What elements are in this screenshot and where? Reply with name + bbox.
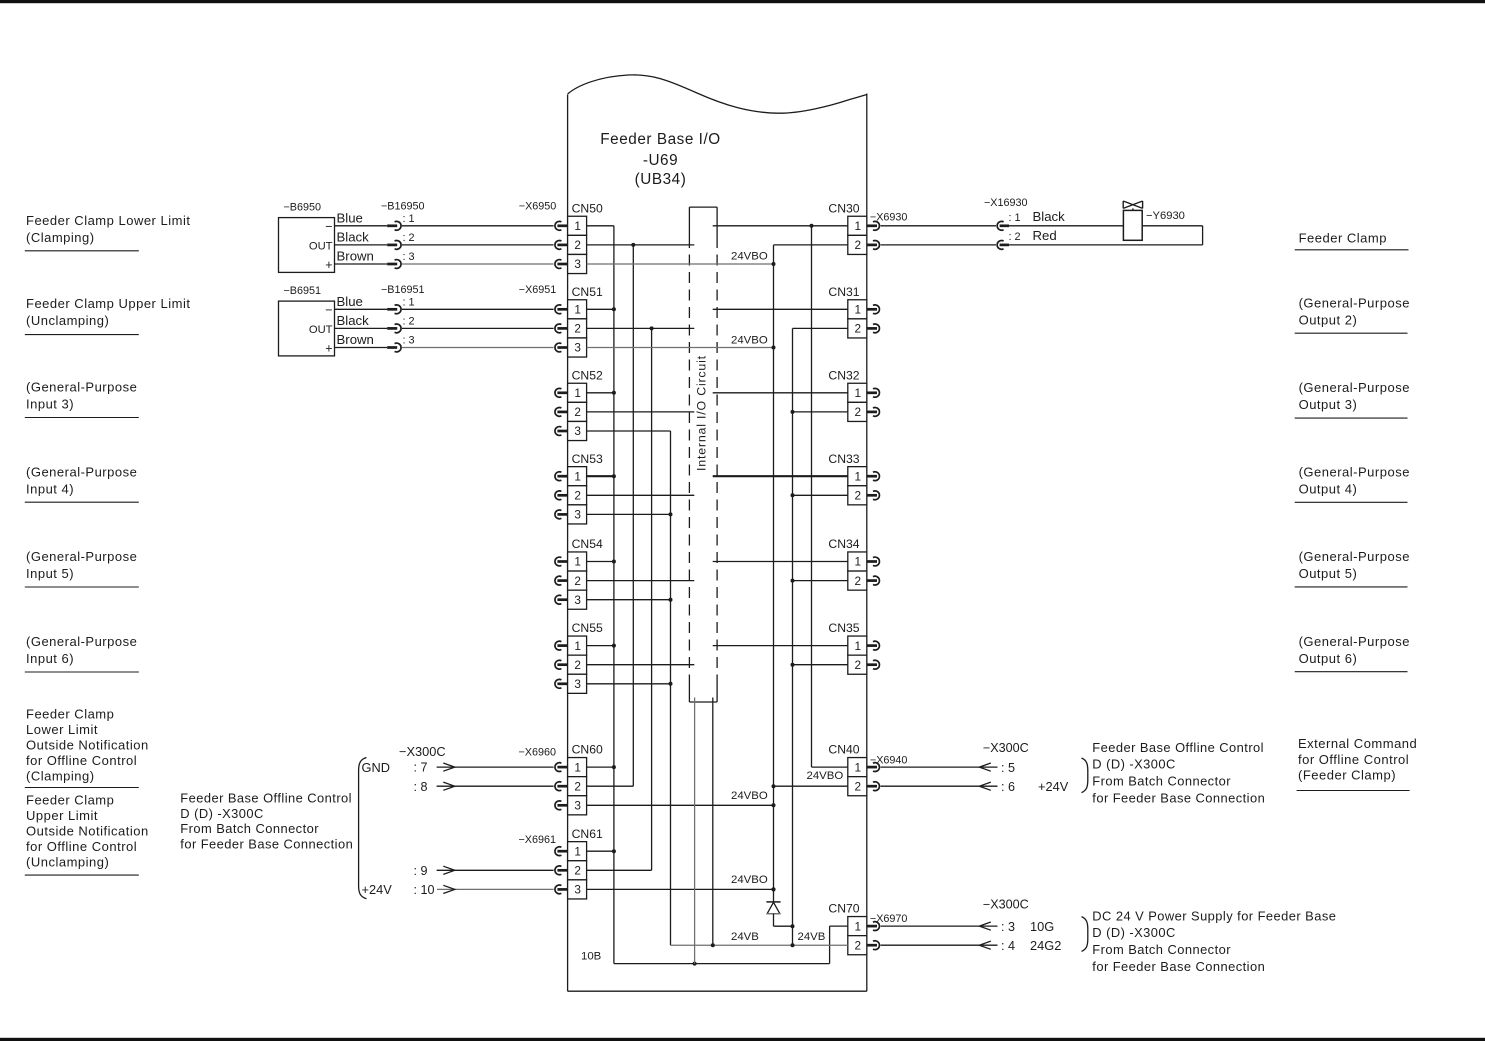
svg-text:Brown: Brown bbox=[337, 332, 374, 347]
svg-text:Lower Limit: Lower Limit bbox=[26, 722, 98, 737]
wire internal circuit to 10B line bbox=[694, 698, 696, 964]
svg-text:1: 1 bbox=[574, 555, 581, 569]
connector CN54 bbox=[568, 537, 603, 609]
svg-text:CN31: CN31 bbox=[828, 285, 859, 299]
grouping bracket for X300C wires bbox=[359, 758, 367, 899]
svg-text:2: 2 bbox=[574, 489, 581, 503]
rail CN30 pin1 to CN40 pin1 bbox=[810, 224, 848, 767]
svg-text:Outside Notification: Outside Notification bbox=[26, 824, 149, 839]
svg-text:: 1: : 1 bbox=[403, 296, 415, 308]
feeder base I/O unit U69 outline with wavy break top bbox=[568, 75, 867, 991]
internal I/O circuit block (dashed) bbox=[689, 207, 717, 702]
svg-text:: 10: : 10 bbox=[413, 883, 434, 897]
svg-text:: 1: : 1 bbox=[403, 213, 415, 225]
svg-text:Output 2): Output 2) bbox=[1299, 313, 1358, 328]
batch connector X300C right label (offline) bbox=[983, 741, 1029, 755]
svg-text:(General-Purpose: (General-Purpose bbox=[26, 464, 137, 479]
svg-text:CN52: CN52 bbox=[572, 368, 603, 382]
svg-text:: 6: : 6 bbox=[1001, 780, 1015, 794]
inline connector B16950 bbox=[381, 201, 425, 269]
svg-text:3: 3 bbox=[574, 677, 581, 691]
wire CN70 pin1 to X300C:3 10G bbox=[881, 919, 1055, 934]
proximity sensor B6950 bbox=[279, 202, 335, 273]
svg-text:2: 2 bbox=[574, 779, 581, 793]
label general purpose output 5 bbox=[1295, 549, 1410, 587]
svg-text:for Feeder Base Connection: for Feeder Base Connection bbox=[180, 837, 353, 852]
svg-text:−X6930: −X6930 bbox=[870, 211, 908, 223]
svg-text:CN60: CN60 bbox=[572, 743, 603, 757]
svg-text:3: 3 bbox=[574, 883, 581, 897]
batch connector X300C left label bbox=[399, 744, 446, 759]
svg-text:(General-Purpose: (General-Purpose bbox=[26, 634, 137, 649]
svg-text:Feeder Base Offline Control: Feeder Base Offline Control bbox=[1092, 740, 1264, 755]
svg-text:1: 1 bbox=[574, 639, 581, 653]
svg-text:Input 4): Input 4) bbox=[26, 481, 74, 496]
svg-text:−B16951: −B16951 bbox=[381, 284, 425, 296]
svg-text:−X6970: −X6970 bbox=[870, 913, 908, 925]
rail output pin2 24VB to CN31-CN35 bbox=[791, 328, 848, 945]
svg-text:1: 1 bbox=[574, 219, 581, 233]
svg-text:Feeder Clamp Lower Limit: Feeder Clamp Lower Limit bbox=[26, 213, 190, 228]
batch connector X300C right label (power) bbox=[983, 897, 1029, 911]
CN32 socket pins bbox=[867, 388, 880, 416]
wire X300C:10 to CN61 pin3 bbox=[413, 883, 553, 897]
wires B16951 to X6951 bbox=[402, 284, 556, 348]
label general purpose output 3 bbox=[1295, 380, 1410, 418]
svg-text:Outside Notification: Outside Notification bbox=[26, 737, 149, 752]
svg-text:D (D) -X300C: D (D) -X300C bbox=[1092, 925, 1175, 940]
CN61 socket pins bbox=[555, 847, 568, 894]
wire CN30 pin2 Red return loop bbox=[881, 226, 1203, 245]
proximity sensor B6951 bbox=[279, 285, 335, 356]
svg-text:−: − bbox=[325, 303, 332, 317]
svg-text:2: 2 bbox=[855, 938, 862, 952]
connector CN32 bbox=[828, 368, 866, 421]
svg-text:External Command: External Command bbox=[1298, 736, 1417, 751]
svg-text:10G: 10G bbox=[1030, 919, 1054, 934]
CN54 socket pins bbox=[555, 557, 568, 604]
connector CN52 bbox=[568, 368, 603, 440]
wire CN40 pin2 to X300C:6 bbox=[881, 779, 1069, 794]
right offline control description bbox=[1092, 740, 1265, 805]
label general purpose input 5 bbox=[25, 549, 139, 587]
svg-text:24VB: 24VB bbox=[731, 931, 759, 943]
CN53 socket pins bbox=[555, 472, 568, 519]
svg-text:CN53: CN53 bbox=[572, 452, 603, 466]
connector CN35 bbox=[828, 621, 866, 674]
svg-text:1: 1 bbox=[855, 555, 862, 569]
connector X6961 label bbox=[518, 834, 556, 846]
svg-text:Internal I/O Circuit: Internal I/O Circuit bbox=[695, 355, 709, 471]
svg-text:(General-Purpose: (General-Purpose bbox=[1299, 549, 1410, 564]
svg-text:OUT: OUT bbox=[309, 241, 333, 253]
svg-text:+: + bbox=[325, 258, 332, 272]
wire X300C:9 to CN61 pin2 bbox=[413, 864, 553, 878]
connector CN34 bbox=[828, 537, 866, 590]
svg-text:1: 1 bbox=[855, 303, 862, 317]
label feeder clamp upper limit outside notification bbox=[25, 793, 149, 876]
svg-text:CN70: CN70 bbox=[828, 902, 859, 916]
connector CN40 bbox=[828, 743, 866, 796]
svg-text:2: 2 bbox=[574, 864, 581, 878]
svg-text:(Feeder Clamp): (Feeder Clamp) bbox=[1298, 768, 1396, 783]
svg-text:From Batch Connector: From Batch Connector bbox=[1092, 774, 1231, 789]
svg-text:10B: 10B bbox=[581, 950, 601, 962]
CN33 socket pins bbox=[867, 472, 880, 500]
svg-text:1: 1 bbox=[574, 844, 581, 858]
svg-text:for Offline Control: for Offline Control bbox=[1298, 752, 1409, 767]
wires CN30-CN35 pin1 to internal circuit bbox=[713, 226, 848, 646]
svg-text:+24V: +24V bbox=[362, 882, 393, 897]
inline connector X16930 bbox=[984, 197, 1065, 249]
svg-text:−B6950: −B6950 bbox=[284, 202, 322, 214]
svg-text:: 3: : 3 bbox=[403, 335, 415, 347]
svg-text:1: 1 bbox=[855, 219, 862, 233]
svg-text:2: 2 bbox=[574, 238, 581, 252]
net +24V label bbox=[362, 882, 393, 897]
svg-text:−X6950: −X6950 bbox=[519, 201, 557, 213]
svg-text:3: 3 bbox=[574, 257, 581, 271]
svg-text:Black: Black bbox=[337, 313, 370, 328]
svg-text:-U69: -U69 bbox=[643, 152, 678, 169]
svg-text:GND: GND bbox=[362, 760, 390, 775]
svg-text:: 2: : 2 bbox=[1009, 231, 1021, 243]
connector X6960 label bbox=[518, 746, 556, 758]
svg-text:OUT: OUT bbox=[309, 324, 333, 336]
svg-text:Output 4): Output 4) bbox=[1299, 481, 1358, 496]
svg-text:−X300C: −X300C bbox=[983, 741, 1029, 755]
connector CN61 bbox=[568, 827, 603, 899]
label general purpose output 6 bbox=[1295, 634, 1410, 672]
svg-text:1: 1 bbox=[855, 919, 862, 933]
svg-text:2: 2 bbox=[574, 574, 581, 588]
grouping bracket offline control bbox=[1082, 758, 1088, 793]
svg-text:for Feeder Base Connection: for Feeder Base Connection bbox=[1092, 790, 1265, 805]
solenoid valve Y6930 bbox=[1123, 201, 1185, 240]
rail CN51 pin2 to CN61 pin2 bbox=[587, 328, 652, 870]
label external command for offline control bbox=[1297, 736, 1418, 790]
net 24VBO rail bbox=[587, 245, 848, 902]
CN40 socket pins bbox=[867, 763, 880, 791]
svg-text:3: 3 bbox=[574, 799, 581, 813]
unit title text bbox=[600, 131, 720, 188]
rail CN50 pin2 to CN60 pin2 bbox=[587, 245, 634, 786]
wire CN30 pin1 Black to valve bbox=[881, 225, 1124, 227]
svg-text:CN40: CN40 bbox=[828, 743, 859, 757]
svg-text:Brown: Brown bbox=[337, 249, 374, 264]
svg-text:−X6960: −X6960 bbox=[518, 746, 556, 758]
svg-text:Blue: Blue bbox=[337, 294, 363, 309]
svg-text:: 3: : 3 bbox=[1001, 920, 1015, 934]
svg-text:+: + bbox=[325, 341, 332, 355]
svg-text:−B16950: −B16950 bbox=[381, 201, 425, 213]
svg-text:Feeder Clamp: Feeder Clamp bbox=[1299, 231, 1387, 246]
svg-text:2: 2 bbox=[574, 658, 581, 672]
wire CN70 pin2 to X300C:4 24G2 bbox=[881, 938, 1062, 953]
connector X6970 label bbox=[870, 913, 908, 925]
svg-text:D (D) -X300C: D (D) -X300C bbox=[180, 806, 263, 821]
svg-text:24G2: 24G2 bbox=[1030, 938, 1061, 953]
wires B16950 to X6950 bbox=[402, 201, 556, 265]
svg-text:2: 2 bbox=[855, 238, 862, 252]
connector CN33 bbox=[828, 452, 866, 505]
svg-text:2: 2 bbox=[855, 405, 862, 419]
wire CN40 pin1 to X300C:5 bbox=[881, 761, 1015, 775]
label general purpose input 4 bbox=[25, 464, 139, 502]
svg-text:1: 1 bbox=[855, 469, 862, 483]
svg-text:Feeder Clamp: Feeder Clamp bbox=[26, 706, 114, 721]
svg-text:(General-Purpose: (General-Purpose bbox=[26, 549, 137, 564]
sensor B6950 wires Blue/Black/Brown bbox=[335, 210, 388, 264]
svg-text:−B6951: −B6951 bbox=[284, 285, 322, 297]
svg-text:3: 3 bbox=[574, 341, 581, 355]
CN34 socket pins bbox=[867, 557, 880, 585]
wire X300C:8 to CN60 pin2 bbox=[413, 780, 553, 794]
svg-text:3: 3 bbox=[574, 593, 581, 607]
CN55 socket pins bbox=[555, 641, 568, 688]
connector CN31 bbox=[828, 285, 866, 338]
svg-text:2: 2 bbox=[855, 574, 862, 588]
wires CN52-CN55 pin2 to internal circuit bbox=[587, 412, 695, 665]
svg-text:Feeder Base I/O: Feeder Base I/O bbox=[600, 131, 720, 148]
svg-text:(Unclamping): (Unclamping) bbox=[26, 313, 109, 328]
svg-text:3: 3 bbox=[574, 424, 581, 438]
svg-text:24VBO: 24VBO bbox=[731, 251, 768, 263]
svg-text:: 2: : 2 bbox=[403, 315, 415, 327]
svg-text:Feeder Clamp Upper Limit: Feeder Clamp Upper Limit bbox=[26, 296, 190, 311]
svg-text:: 3: : 3 bbox=[403, 251, 415, 263]
svg-text:(UB34): (UB34) bbox=[635, 171, 687, 188]
page bottom border bbox=[0, 1038, 1485, 1041]
wire CN50 pin2 to internal circuit bbox=[587, 243, 695, 247]
svg-text:1: 1 bbox=[574, 303, 581, 317]
svg-text:From Batch Connector: From Batch Connector bbox=[1092, 942, 1231, 957]
svg-text:1: 1 bbox=[855, 386, 862, 400]
wire internal circuit to 24VB line bbox=[712, 698, 714, 946]
svg-text:Blue: Blue bbox=[337, 210, 363, 225]
connector CN53 bbox=[568, 452, 603, 524]
svg-text:Input 6): Input 6) bbox=[26, 651, 74, 666]
svg-text:Red: Red bbox=[1033, 228, 1057, 243]
svg-text:(Unclamping): (Unclamping) bbox=[26, 855, 109, 870]
svg-text:: 4: : 4 bbox=[1001, 939, 1015, 953]
svg-text:Output 3): Output 3) bbox=[1299, 397, 1358, 412]
CN52 socket pins bbox=[555, 388, 568, 435]
CN50 socket pins bbox=[555, 221, 568, 268]
svg-text:2: 2 bbox=[855, 658, 862, 672]
svg-text:1: 1 bbox=[855, 760, 862, 774]
right power supply description bbox=[1092, 908, 1336, 973]
svg-text:2: 2 bbox=[855, 779, 862, 793]
svg-text:−Y6930: −Y6930 bbox=[1146, 210, 1185, 222]
svg-text:1: 1 bbox=[855, 639, 862, 653]
svg-text:Input 5): Input 5) bbox=[26, 566, 74, 581]
svg-text:: 1: : 1 bbox=[1009, 212, 1021, 224]
svg-text:CN34: CN34 bbox=[828, 537, 859, 551]
CN51 socket pins bbox=[555, 305, 568, 352]
svg-text:2: 2 bbox=[574, 322, 581, 336]
svg-text:D (D) -X300C: D (D) -X300C bbox=[1092, 757, 1175, 772]
CN30 socket pins bbox=[867, 221, 880, 249]
page top border bbox=[0, 0, 1485, 3]
grouping bracket power supply bbox=[1082, 917, 1088, 952]
sensor B6951 wires Blue/Black/Brown bbox=[335, 294, 388, 348]
svg-text:24VBO: 24VBO bbox=[807, 770, 844, 782]
svg-text:(General-Purpose: (General-Purpose bbox=[1299, 464, 1410, 479]
svg-text:−X6940: −X6940 bbox=[870, 755, 908, 767]
svg-text:From Batch Connector: From Batch Connector bbox=[180, 821, 319, 836]
connector CN50 bbox=[568, 201, 603, 273]
left offline control description bbox=[180, 790, 353, 851]
svg-text:24VBO: 24VBO bbox=[731, 334, 768, 346]
CN35 socket pins bbox=[867, 641, 880, 669]
svg-text:24VB: 24VB bbox=[798, 931, 826, 943]
inline connector B16951 bbox=[381, 284, 425, 352]
svg-text:−X300C: −X300C bbox=[983, 897, 1029, 911]
svg-text:Black: Black bbox=[1033, 209, 1066, 224]
svg-text:1: 1 bbox=[574, 760, 581, 774]
svg-text:CN55: CN55 bbox=[572, 621, 603, 635]
net 10B: pin1 rail bbox=[581, 226, 848, 966]
svg-text:(Clamping): (Clamping) bbox=[26, 230, 95, 245]
wire X300C:7 to CN60 pin1 bbox=[413, 761, 553, 775]
svg-text:−X300C: −X300C bbox=[399, 744, 446, 759]
svg-text:: 2: : 2 bbox=[403, 232, 415, 244]
label general purpose output 2 bbox=[1295, 296, 1410, 334]
svg-text:Black: Black bbox=[337, 230, 370, 245]
svg-text:CN54: CN54 bbox=[572, 537, 603, 551]
svg-text:2: 2 bbox=[574, 405, 581, 419]
label feeder clamp lower limit outside notification bbox=[25, 706, 149, 787]
svg-text:1: 1 bbox=[574, 469, 581, 483]
svg-text:24VBO: 24VBO bbox=[731, 874, 768, 886]
svg-text:CN61: CN61 bbox=[572, 827, 603, 841]
svg-text:Input 3): Input 3) bbox=[26, 396, 74, 411]
connector CN60 bbox=[568, 743, 603, 815]
connector CN55 bbox=[568, 621, 603, 693]
svg-text:2: 2 bbox=[855, 322, 862, 336]
svg-text:CN33: CN33 bbox=[828, 452, 859, 466]
svg-text:: 7: : 7 bbox=[413, 761, 427, 775]
svg-text:Feeder Base Offline Control: Feeder Base Offline Control bbox=[180, 790, 352, 805]
wire CN51 pin2 to internal circuit bbox=[587, 326, 695, 330]
svg-text:+24V: +24V bbox=[1038, 779, 1069, 794]
svg-text:Upper Limit: Upper Limit bbox=[26, 808, 98, 823]
label feeder clamp upper limit bbox=[25, 296, 191, 335]
net GND label bbox=[362, 760, 390, 775]
label feeder clamp lower limit bbox=[25, 213, 191, 251]
flyback diode bbox=[766, 887, 792, 926]
label general purpose input 3 bbox=[25, 379, 139, 417]
svg-text:Output 6): Output 6) bbox=[1299, 651, 1358, 666]
svg-text:CN30: CN30 bbox=[828, 201, 859, 215]
label general purpose output 4 bbox=[1295, 464, 1410, 502]
svg-text:: 5: : 5 bbox=[1001, 761, 1015, 775]
svg-text:for Feeder Base Connection: for Feeder Base Connection bbox=[1092, 959, 1265, 974]
connector X6930 label bbox=[870, 211, 908, 223]
svg-text:CN51: CN51 bbox=[572, 285, 603, 299]
svg-text:Output 5): Output 5) bbox=[1299, 566, 1358, 581]
svg-text:(General-Purpose: (General-Purpose bbox=[26, 379, 137, 394]
svg-text:CN32: CN32 bbox=[828, 368, 859, 382]
CN31 socket pins bbox=[867, 305, 880, 333]
svg-text:for Offline Control: for Offline Control bbox=[26, 753, 137, 768]
svg-text:−: − bbox=[325, 220, 332, 234]
svg-text:CN35: CN35 bbox=[828, 621, 859, 635]
connector CN51 bbox=[568, 285, 603, 357]
connector CN30 bbox=[828, 201, 866, 254]
svg-text:−X16930: −X16930 bbox=[984, 197, 1028, 209]
svg-text:24VBO: 24VBO bbox=[731, 790, 768, 802]
svg-text:(General-Purpose: (General-Purpose bbox=[1299, 296, 1410, 311]
svg-text:Feeder Clamp: Feeder Clamp bbox=[26, 793, 114, 808]
svg-text:−X6951: −X6951 bbox=[519, 284, 557, 296]
svg-text:(Clamping): (Clamping) bbox=[26, 768, 95, 783]
svg-text:: 8: : 8 bbox=[413, 780, 427, 794]
svg-text:(General-Purpose: (General-Purpose bbox=[1299, 380, 1410, 395]
svg-text:for Offline Control: for Offline Control bbox=[26, 839, 137, 854]
svg-text:2: 2 bbox=[855, 489, 862, 503]
label general purpose input 6 bbox=[25, 634, 139, 672]
svg-text:DC 24 V Power Supply for Feede: DC 24 V Power Supply for Feeder Base bbox=[1092, 908, 1336, 923]
net 24VB: pin3 rail bbox=[587, 431, 848, 947]
CN60 socket pins bbox=[555, 763, 568, 810]
connector CN70 bbox=[828, 902, 866, 955]
svg-text:3: 3 bbox=[574, 508, 581, 522]
label feeder clamp (right) bbox=[1295, 231, 1409, 250]
svg-text:: 9: : 9 bbox=[413, 864, 427, 878]
svg-text:−X6961: −X6961 bbox=[518, 834, 556, 846]
connector X6940 label bbox=[870, 755, 908, 767]
svg-text:1: 1 bbox=[574, 386, 581, 400]
CN70 socket pins bbox=[867, 922, 880, 950]
svg-text:(General-Purpose: (General-Purpose bbox=[1299, 634, 1410, 649]
svg-text:CN50: CN50 bbox=[572, 201, 603, 215]
